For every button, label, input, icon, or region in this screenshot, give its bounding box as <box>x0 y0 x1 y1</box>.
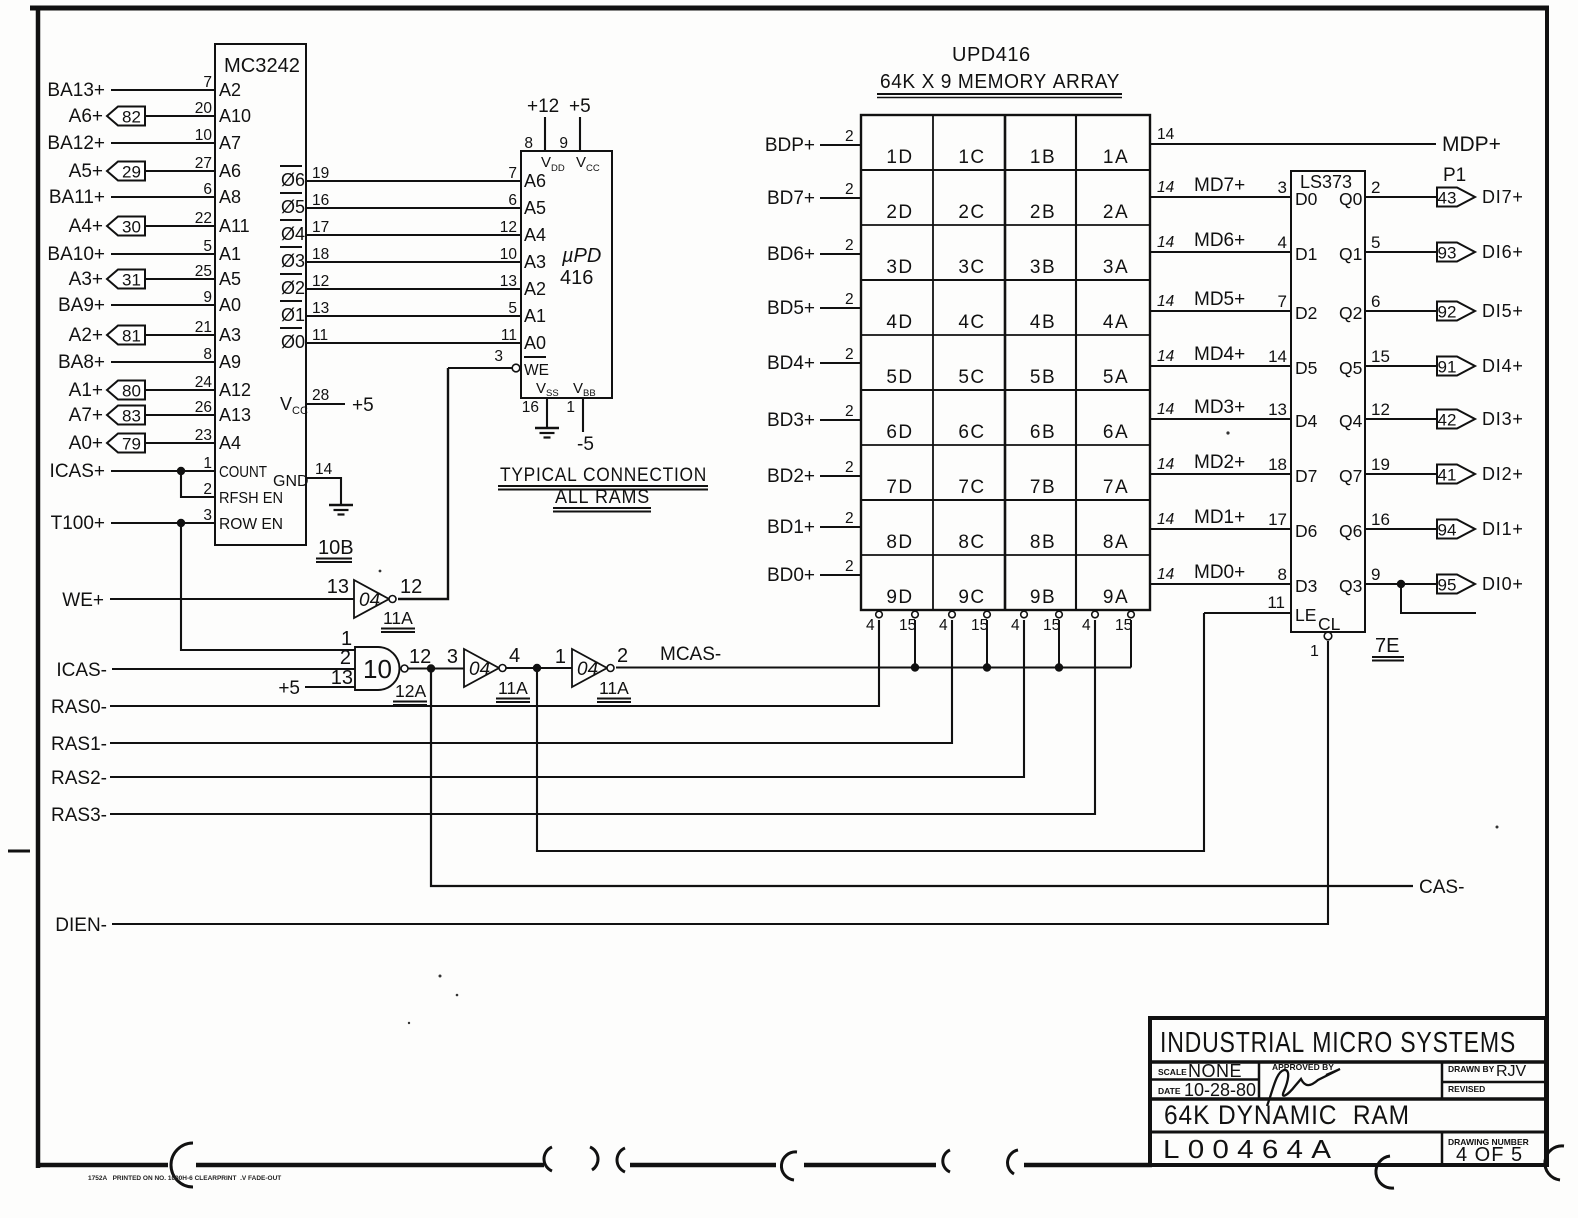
svg-text:16: 16 <box>1371 510 1390 529</box>
svg-text:BA11+: BA11+ <box>49 187 105 208</box>
svg-text:3: 3 <box>203 507 212 524</box>
svg-text:D1: D1 <box>1295 244 1317 264</box>
svg-text:14: 14 <box>1157 566 1175 583</box>
node Q3 branch junction and stub wire <box>1397 580 1476 613</box>
svg-text:11: 11 <box>1267 593 1285 612</box>
wire ICAS+ to MC3242 pin 1 (COUNT) <box>50 455 268 482</box>
svg-text:ROW EN: ROW EN <box>219 516 283 533</box>
svg-text:2: 2 <box>617 645 628 667</box>
svg-text:8A: 8A <box>1103 532 1129 553</box>
svg-text:6: 6 <box>203 181 212 198</box>
svg-text:DI5+: DI5+ <box>1482 301 1524 321</box>
svg-text:4: 4 <box>509 645 520 667</box>
inverter U7 04 (11A) : pins 1-2 <box>555 645 631 702</box>
svg-text:Q2: Q2 <box>1339 303 1362 323</box>
svg-text:DI1+: DI1+ <box>1482 519 1524 539</box>
svg-text:8B: 8B <box>1030 532 1056 553</box>
memory array bottom pin 15 at x=1059 <box>1043 611 1062 634</box>
wire MD0+ : memory array pin 14 to LS373 <box>1150 562 1291 584</box>
svg-text:27: 27 <box>195 155 212 172</box>
svg-text:26: 26 <box>195 399 212 416</box>
svg-text:+5: +5 <box>352 395 374 416</box>
svg-text:5: 5 <box>1371 233 1380 252</box>
svg-text:BD6+: BD6+ <box>767 244 815 265</box>
svg-text:MD1+: MD1+ <box>1194 507 1245 528</box>
svg-text:A2+: A2+ <box>69 325 103 346</box>
svg-text:3B: 3B <box>1030 257 1056 278</box>
svg-text:A4: A4 <box>219 433 241 453</box>
wire BD2+ to memory array pin 2 <box>767 459 861 487</box>
svg-text:SCALE: SCALE <box>1158 1067 1187 1077</box>
svg-text:ICAS-: ICAS- <box>56 660 107 681</box>
svg-text:Ø6: Ø6 <box>281 170 305 190</box>
svg-text:12: 12 <box>312 273 329 290</box>
svg-text:A7+: A7+ <box>69 405 103 426</box>
svg-text:DATE: DATE <box>1158 1086 1181 1096</box>
wire O1 : MC3242 pin 13 to uPD416 pin 5 (A1) <box>280 300 546 326</box>
memory array bottom pin 4 at x=952 <box>939 611 955 634</box>
LS373 pin 7 D2 input <box>1278 292 1318 323</box>
LS373 pin 14 D5 input <box>1268 347 1317 378</box>
svg-text:DI7+: DI7+ <box>1482 187 1524 207</box>
svg-text:14: 14 <box>315 461 333 478</box>
svg-text:1: 1 <box>203 455 212 472</box>
svg-text:GND: GND <box>273 473 309 490</box>
svg-text:ICAS+: ICAS+ <box>50 461 105 482</box>
svg-text:D3: D3 <box>1295 576 1317 596</box>
wire ICAS- to NAND pin 2 <box>56 660 355 681</box>
svg-text:14: 14 <box>1157 293 1175 310</box>
svg-text:CC: CC <box>586 163 600 174</box>
wire MD7+ : memory array pin 14 to LS373 <box>1150 175 1291 197</box>
svg-text:RAS1-: RAS1- <box>51 734 107 755</box>
svg-text:11: 11 <box>501 327 517 344</box>
svg-text:9A: 9A <box>1103 587 1129 608</box>
svg-text:30: 30 <box>122 218 141 237</box>
svg-text:MD2+: MD2+ <box>1194 452 1245 473</box>
svg-text:4: 4 <box>866 617 875 634</box>
wire MD3+ : memory array pin 14 to LS373 <box>1150 397 1291 419</box>
svg-text:04: 04 <box>469 659 490 680</box>
wire BD7+ to memory array pin 2 <box>767 181 861 209</box>
svg-text:12: 12 <box>1371 400 1390 419</box>
svg-text:RFSH EN: RFSH EN <box>219 490 283 507</box>
svg-text:1: 1 <box>1310 643 1319 660</box>
svg-text:1D: 1D <box>886 147 913 168</box>
svg-text:Q4: Q4 <box>1339 411 1363 431</box>
svg-text:95: 95 <box>1438 576 1457 595</box>
LS373 pin 18 D7 input <box>1268 455 1317 486</box>
svg-text:A7: A7 <box>219 133 241 153</box>
MC3242 pin 14 GND with ground symbol <box>273 461 353 515</box>
svg-text:V: V <box>536 380 546 397</box>
svg-text:80: 80 <box>122 382 141 401</box>
svg-text:BD1+: BD1+ <box>767 517 815 538</box>
wire MDP+ from memory array pin 14 <box>1150 126 1501 156</box>
svg-text:V: V <box>541 154 551 171</box>
svg-text:2: 2 <box>845 510 854 527</box>
wire NAND output 12 to inverter pin 3, junction A <box>408 664 464 672</box>
wire RAS3- to array pin 4 column A <box>51 620 1095 826</box>
svg-text:8: 8 <box>203 346 212 363</box>
svg-text:COUNT: COUNT <box>219 464 267 481</box>
svg-text:BD0+: BD0+ <box>767 565 815 586</box>
svg-text:7: 7 <box>203 74 212 91</box>
IC U2 uPD416 RAM (typical connection) <box>521 151 612 399</box>
LS373 pin 17 D6 input <box>1268 510 1317 541</box>
svg-text:3C: 3C <box>958 257 985 278</box>
svg-text:7E: 7E <box>1375 635 1399 657</box>
svg-text:A0+: A0+ <box>69 433 103 454</box>
svg-text:1C: 1C <box>958 147 985 168</box>
svg-text:+5: +5 <box>278 678 300 699</box>
svg-text:5B: 5B <box>1030 367 1056 388</box>
svg-text:4: 4 <box>939 617 948 634</box>
wire BA11+ to MC3242 pin 6 (A8) <box>49 181 241 208</box>
svg-text:15: 15 <box>1115 617 1132 634</box>
svg-text:D6: D6 <box>1295 521 1317 541</box>
svg-text:3: 3 <box>447 646 458 668</box>
title block approved by + signature <box>1267 1062 1340 1106</box>
svg-text:14: 14 <box>1157 234 1175 251</box>
svg-text:DRAWN BY: DRAWN BY <box>1448 1064 1495 1074</box>
svg-text:6: 6 <box>1371 292 1380 311</box>
svg-text:7C: 7C <box>958 477 985 498</box>
svg-text:D4: D4 <box>1295 411 1318 431</box>
svg-text:2: 2 <box>845 558 854 575</box>
svg-text:4 OF 5: 4 OF 5 <box>1456 1144 1523 1166</box>
svg-text:8C: 8C <box>958 532 985 553</box>
inverter U4 04 (11A) for WE+ : pins 13-12 <box>327 576 423 632</box>
wire T100+ junction down to NAND pin 1 <box>177 519 355 650</box>
svg-text:3: 3 <box>494 348 503 365</box>
svg-text:16: 16 <box>312 192 329 209</box>
LS373 pin 8 D3 input <box>1278 565 1318 596</box>
svg-text:+5: +5 <box>569 96 591 117</box>
LS373 pin 1 CL (bubble) <box>1310 614 1341 660</box>
LS373 pin 11 LE <box>1204 593 1316 625</box>
svg-text:A12: A12 <box>219 380 251 400</box>
svg-text:24: 24 <box>195 374 213 391</box>
svg-text:3D: 3D <box>886 257 913 278</box>
svg-text:4: 4 <box>1278 233 1287 252</box>
wire O2 : MC3242 pin 12 to uPD416 pin 13 (A2) <box>280 273 546 299</box>
svg-text:DI4+: DI4+ <box>1482 356 1524 376</box>
svg-text:MD7+: MD7+ <box>1194 175 1245 196</box>
uPD416 pin 3 WE (active low, bubble) <box>448 348 549 379</box>
wire RAS0- to array pin 4 column D <box>51 620 879 718</box>
svg-text:94: 94 <box>1438 521 1457 540</box>
svg-text:2C: 2C <box>958 202 985 223</box>
svg-text:3A: 3A <box>1103 257 1129 278</box>
svg-text:CAS-: CAS- <box>1419 877 1464 898</box>
svg-text:4B: 4B <box>1030 312 1056 333</box>
svg-text:9: 9 <box>1371 565 1380 584</box>
svg-text:15: 15 <box>1371 347 1390 366</box>
svg-text:31: 31 <box>122 271 141 290</box>
svg-text:4A: 4A <box>1103 312 1129 333</box>
wire BD1+ to memory array pin 2 <box>767 510 861 538</box>
svg-text:6B: 6B <box>1030 422 1056 443</box>
title block drawn by / revised <box>1448 1063 1527 1094</box>
memory array bottom pin 15 at x=987 <box>971 611 990 634</box>
wire MD6+ : memory array pin 14 to LS373 <box>1150 230 1291 252</box>
svg-text:81: 81 <box>122 327 141 346</box>
IC U1 MC3242 address multiplexer (10B) <box>215 44 306 545</box>
svg-text:Ø3: Ø3 <box>281 251 305 271</box>
svg-text:14: 14 <box>1268 347 1287 366</box>
svg-text:A1+: A1+ <box>69 380 103 401</box>
svg-text:14: 14 <box>1157 179 1175 196</box>
svg-text:ALL RAMS: ALL RAMS <box>555 487 650 508</box>
svg-text:2: 2 <box>845 459 854 476</box>
svg-text:Ø0: Ø0 <box>281 332 305 352</box>
svg-text:T100+: T100+ <box>51 513 105 534</box>
svg-text:91: 91 <box>1438 358 1457 377</box>
wire BA10+ to MC3242 pin 5 (A1) <box>47 238 241 265</box>
svg-text:15: 15 <box>1043 617 1060 634</box>
wire BDP+ to memory array pin 2 <box>765 128 861 156</box>
svg-text:SS: SS <box>546 388 559 399</box>
svg-text:A3: A3 <box>524 252 546 272</box>
svg-text:BA9+: BA9+ <box>58 295 105 316</box>
svg-text:12A: 12A <box>395 681 426 701</box>
svg-text:A1: A1 <box>524 306 546 326</box>
svg-text:4C: 4C <box>958 312 985 333</box>
svg-text:A6: A6 <box>524 171 546 191</box>
svg-text:LE: LE <box>1295 605 1316 625</box>
svg-text:1B: 1B <box>1030 147 1056 168</box>
svg-text:2: 2 <box>1371 178 1380 197</box>
svg-text:9D: 9D <box>886 587 913 608</box>
svg-text:RAS2-: RAS2- <box>51 768 107 789</box>
svg-text:V: V <box>573 380 583 397</box>
svg-text:14: 14 <box>1157 401 1175 418</box>
wire MD1+ : memory array pin 14 to LS373 <box>1150 507 1291 529</box>
wire WE+ <box>62 590 354 611</box>
svg-text:8D: 8D <box>886 532 913 553</box>
svg-text:9C: 9C <box>958 587 985 608</box>
wire RAS1- to array pin 4 column C <box>51 620 952 755</box>
svg-text:WE+: WE+ <box>62 590 104 611</box>
wire CAS- from junction A to right edge <box>431 669 1464 899</box>
svg-text:1A: 1A <box>1103 147 1129 168</box>
wire O0 : MC3242 pin 11 to uPD416 pin 11 (A0) <box>280 327 546 353</box>
svg-text:20: 20 <box>195 100 213 117</box>
svg-text:A5: A5 <box>524 198 546 218</box>
svg-text:10: 10 <box>195 127 213 144</box>
svg-text:BB: BB <box>583 388 596 399</box>
svg-text:2: 2 <box>845 403 854 420</box>
svg-text:2: 2 <box>203 481 212 498</box>
svg-text:A3: A3 <box>219 325 241 345</box>
svg-text:13: 13 <box>331 667 353 689</box>
svg-text:19: 19 <box>1371 455 1390 474</box>
svg-text:A6+: A6+ <box>69 106 103 127</box>
svg-text:A5+: A5+ <box>69 161 103 182</box>
svg-text:Ø2: Ø2 <box>281 278 305 298</box>
svg-text:5C: 5C <box>958 367 985 388</box>
svg-text:41: 41 <box>1438 466 1457 485</box>
MC3242 pin 2 RFSH EN fed from ICAS+ junction <box>177 467 283 507</box>
svg-text:5D: 5D <box>886 367 913 388</box>
svg-text:A4: A4 <box>524 225 546 245</box>
wire A3+ to MC3242 pin 25 (A5) <box>69 263 241 290</box>
svg-text:+12: +12 <box>527 96 559 117</box>
title block drawing number 4 OF 5 <box>1448 1137 1529 1166</box>
svg-text:19: 19 <box>312 165 329 182</box>
LS373 pin 16 Q6 output to connector 94 (DI1+) <box>1339 510 1524 541</box>
svg-text:7B: 7B <box>1030 477 1056 498</box>
wire MD5+ : memory array pin 14 to LS373 <box>1150 289 1291 311</box>
LS373 pin 3 D0 input <box>1278 178 1318 209</box>
memory array bottom pin 15 at x=915 <box>899 611 918 634</box>
svg-text:NONE: NONE <box>1188 1061 1242 1081</box>
svg-text:5: 5 <box>203 238 212 255</box>
svg-text:17: 17 <box>312 219 329 236</box>
svg-text:04: 04 <box>577 659 598 680</box>
svg-text:10: 10 <box>363 654 392 684</box>
title block scale row <box>1158 1061 1256 1100</box>
svg-text:1: 1 <box>555 646 566 668</box>
wire BA13+ to MC3242 pin 7 (A2) <box>47 74 241 101</box>
designator 7E (LS373) <box>1372 635 1404 661</box>
wire inverter output 12 up to uPD416 WE pin 3 <box>398 368 448 599</box>
svg-text:9: 9 <box>559 135 568 152</box>
svg-text:REVISED: REVISED <box>1448 1084 1485 1094</box>
wire A6+ to MC3242 pin 20 (A10) <box>69 100 251 127</box>
svg-text:µPD: µPD <box>561 245 601 267</box>
svg-text:83: 83 <box>122 407 141 426</box>
svg-text:13: 13 <box>500 273 517 290</box>
svg-text:6C: 6C <box>958 422 985 443</box>
svg-text:Ø5: Ø5 <box>281 197 305 217</box>
svg-text:DI6+: DI6+ <box>1482 242 1524 262</box>
svg-text:7: 7 <box>508 165 517 182</box>
svg-text:12: 12 <box>400 576 422 598</box>
svg-text:28: 28 <box>312 387 329 404</box>
wire MD2+ : memory array pin 14 to LS373 <box>1150 452 1291 474</box>
svg-text:D5: D5 <box>1295 358 1317 378</box>
svg-text:A5: A5 <box>219 269 241 289</box>
svg-text:DI0+: DI0+ <box>1482 574 1524 594</box>
uPD416 pin 1 VBB to -5 <box>566 398 594 455</box>
svg-text:7D: 7D <box>886 477 913 498</box>
svg-text:79: 79 <box>122 435 141 454</box>
svg-text:9: 9 <box>203 289 212 306</box>
wire O3 : MC3242 pin 18 to uPD416 pin 10 (A3) <box>280 246 546 272</box>
memory array grid box <box>861 115 1150 610</box>
svg-text:2: 2 <box>845 291 854 308</box>
svg-text:7A: 7A <box>1103 477 1129 498</box>
power +5 to uPD416 pin 9 VCC <box>559 96 590 152</box>
svg-text:RAS3-: RAS3- <box>51 805 107 826</box>
svg-text:13: 13 <box>1268 400 1287 419</box>
svg-text:21: 21 <box>195 319 212 336</box>
svg-text:MDP+: MDP+ <box>1442 133 1501 156</box>
svg-text:2: 2 <box>845 128 854 145</box>
svg-text:15: 15 <box>899 617 916 634</box>
svg-text:A2: A2 <box>524 279 546 299</box>
wire DIEN- to LS373 CL pin 1 <box>55 641 1328 936</box>
caption TYPICAL CONNECTION ALL RAMS <box>498 465 708 512</box>
svg-text:MD3+: MD3+ <box>1194 397 1245 418</box>
svg-text:7: 7 <box>1278 292 1287 311</box>
svg-text:MD0+: MD0+ <box>1194 562 1245 583</box>
wire A4+ to MC3242 pin 22 (A11) <box>69 210 250 237</box>
svg-text:WE: WE <box>524 362 549 379</box>
wire O4 : MC3242 pin 17 to uPD416 pin 12 (A4) <box>280 219 546 245</box>
wire BA12+ to MC3242 pin 10 (A7) <box>47 127 241 154</box>
svg-text:43: 43 <box>1438 189 1457 208</box>
svg-text:11: 11 <box>312 327 328 344</box>
svg-text:Q0: Q0 <box>1339 189 1363 209</box>
svg-text:17: 17 <box>1268 510 1287 529</box>
svg-text:10-28-80: 10-28-80 <box>1184 1080 1256 1100</box>
svg-text:A4+: A4+ <box>69 216 103 237</box>
svg-text:A2: A2 <box>219 80 241 100</box>
svg-text:10B: 10B <box>318 537 354 559</box>
power +12 to uPD416 pin 8 VDD <box>524 96 559 152</box>
svg-text:16: 16 <box>522 399 539 416</box>
svg-text:Ø1: Ø1 <box>281 305 305 325</box>
designator 10B (MC3242) <box>316 537 354 562</box>
wire BD0+ to memory array pin 2 <box>767 558 861 586</box>
svg-text:Q7: Q7 <box>1339 466 1362 486</box>
svg-text:V: V <box>280 394 292 414</box>
svg-text:3: 3 <box>1278 178 1287 197</box>
svg-text:8: 8 <box>1278 565 1287 584</box>
svg-text:L 0 0 4 6 4 A: L 0 0 4 6 4 A <box>1163 1134 1332 1164</box>
svg-text:DI2+: DI2+ <box>1482 464 1524 484</box>
svg-text:BD7+: BD7+ <box>767 188 815 209</box>
svg-text:A8: A8 <box>219 187 241 207</box>
svg-text:RJV: RJV <box>1496 1063 1527 1080</box>
svg-text:64K X 9 MEMORY ARRAY: 64K X 9 MEMORY ARRAY <box>880 71 1120 93</box>
svg-text:29: 29 <box>122 163 141 182</box>
svg-text:14: 14 <box>1157 126 1175 143</box>
svg-text:A3+: A3+ <box>69 269 103 290</box>
LS373 pin 19 Q7 output to connector 41 (DI2+) <box>1339 455 1524 486</box>
svg-text:UPD416: UPD416 <box>952 44 1031 66</box>
memory array cell labels 1D..9A <box>886 147 1129 608</box>
wire T100+ to MC3242 pin 3 (ROW EN) <box>51 507 283 534</box>
LS373 pin 9 Q3 output to connector 95 (DI0+) <box>1339 565 1524 596</box>
LS373 pin 15 Q5 output to connector 91 (DI4+) <box>1339 347 1524 378</box>
wire BD5+ to memory array pin 2 <box>767 291 861 319</box>
svg-text:2: 2 <box>845 346 854 363</box>
svg-text:BA8+: BA8+ <box>58 352 105 373</box>
svg-text:Q1: Q1 <box>1339 244 1362 264</box>
LS373 pin 6 Q2 output to connector 92 (DI5+) <box>1339 292 1524 323</box>
svg-text:2B: 2B <box>1030 202 1056 223</box>
svg-text:BA13+: BA13+ <box>47 80 105 101</box>
svg-text:A10: A10 <box>219 106 251 126</box>
wire RAS2- to array pin 4 column B <box>51 620 1024 789</box>
svg-text:8: 8 <box>524 135 533 152</box>
svg-text:CC: CC <box>292 405 308 417</box>
memory array bottom pin 15 at x=1131 <box>1115 611 1134 634</box>
svg-text:BD4+: BD4+ <box>767 353 815 374</box>
svg-text:MD6+: MD6+ <box>1194 230 1245 251</box>
svg-text:BD3+: BD3+ <box>767 410 815 431</box>
wire O5 : MC3242 pin 16 to uPD416 pin 6 (A5) <box>280 192 546 218</box>
svg-text:5A: 5A <box>1103 367 1129 388</box>
svg-text:MCAS-: MCAS- <box>660 644 721 665</box>
svg-text:12: 12 <box>409 646 431 668</box>
title block INDUSTRIAL MICRO SYSTEMS <box>1150 1018 1546 1165</box>
svg-text:BA12+: BA12+ <box>47 133 105 154</box>
